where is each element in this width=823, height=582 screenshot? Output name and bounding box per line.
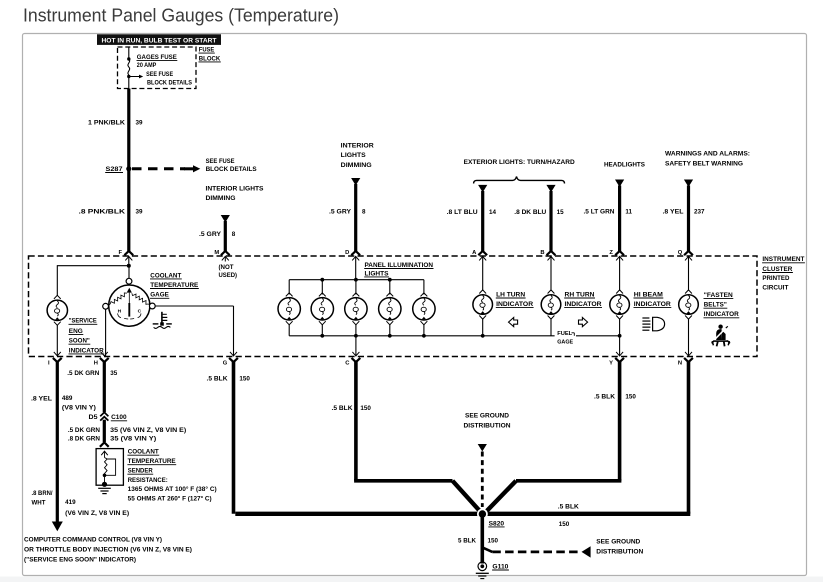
svg-text:419: 419 (65, 499, 76, 506)
svg-text:35 (V6 VIN Z, V8 VIN E): 35 (V6 VIN Z, V8 VIN E) (110, 427, 186, 434)
svg-text:150: 150 (559, 521, 570, 528)
svg-text:PANEL ILLUMINATION: PANEL ILLUMINATION (365, 262, 434, 269)
svg-text:LIGHTS: LIGHTS (341, 152, 366, 159)
svg-text:.5 GRY: .5 GRY (199, 231, 222, 238)
svg-text:39: 39 (136, 120, 144, 127)
svg-text:SOON": SOON" (69, 338, 90, 345)
svg-text:.8 YEL: .8 YEL (31, 396, 52, 403)
svg-text:11: 11 (625, 209, 632, 216)
svg-text:39: 39 (136, 209, 144, 216)
svg-text:RH TURN: RH TURN (565, 291, 595, 298)
svg-text:.5 DK GRN: .5 DK GRN (68, 427, 100, 434)
svg-text:.8 PNK/BLK: .8 PNK/BLK (79, 209, 126, 216)
svg-text:35: 35 (110, 370, 118, 377)
svg-text:150: 150 (360, 405, 371, 412)
svg-text:WHT: WHT (32, 499, 46, 506)
svg-text:COOLANT: COOLANT (150, 272, 181, 279)
svg-text:M: M (214, 250, 219, 256)
svg-text:LIGHTS: LIGHTS (365, 270, 389, 277)
svg-text:D5: D5 (89, 414, 99, 421)
svg-text:.5 BLK: .5 BLK (558, 503, 579, 510)
svg-text:LH TURN: LH TURN (496, 291, 525, 298)
svg-text:SAFETY BELT WARNING: SAFETY BELT WARNING (665, 160, 743, 167)
svg-text:CLUSTER: CLUSTER (762, 266, 792, 273)
svg-text:HI BEAM: HI BEAM (634, 291, 663, 298)
svg-text:RESISTANCE:: RESISTANCE: (128, 477, 168, 484)
svg-text:14: 14 (489, 209, 497, 216)
svg-text:G110: G110 (492, 563, 509, 570)
svg-text:INDICATOR: INDICATOR (634, 301, 671, 308)
svg-text:Y: Y (609, 361, 613, 367)
svg-text:BLOCK DETAILS: BLOCK DETAILS (206, 166, 257, 173)
svg-text:BLOCK DETAILS: BLOCK DETAILS (147, 79, 192, 86)
svg-text:150: 150 (625, 393, 636, 400)
svg-text:S287: S287 (106, 166, 124, 173)
svg-text:GAGES FUSE: GAGES FUSE (137, 54, 177, 61)
svg-text:INDICATOR: INDICATOR (69, 347, 104, 354)
svg-text:237: 237 (694, 209, 705, 216)
svg-text:15: 15 (557, 209, 565, 216)
svg-text:USED): USED) (219, 272, 238, 279)
svg-text:DISTRIBUTION: DISTRIBUTION (596, 549, 643, 556)
svg-text:INDICATOR: INDICATOR (496, 301, 533, 308)
svg-text:Q: Q (678, 250, 683, 256)
svg-text:5 BLK: 5 BLK (458, 538, 476, 545)
svg-text:HEADLIGHTS: HEADLIGHTS (604, 161, 645, 168)
svg-text:N: N (678, 361, 682, 367)
svg-text:PRINTED: PRINTED (762, 275, 789, 282)
svg-text:INSTRUMENT: INSTRUMENT (762, 256, 804, 263)
svg-text:55 OHMS AT 260° F (127° C): 55 OHMS AT 260° F (127° C) (128, 495, 212, 503)
svg-text:.8 DK GRN: .8 DK GRN (68, 436, 100, 443)
svg-text:1365 OHMS AT 100° F (38° C): 1365 OHMS AT 100° F (38° C) (128, 485, 217, 493)
svg-text:Instrument Panel Gauges (Tempe: Instrument Panel Gauges (Temperature) (23, 4, 339, 25)
svg-text:DIMMING: DIMMING (206, 195, 236, 202)
svg-text:.8 DK BLU: .8 DK BLU (514, 209, 546, 216)
svg-text:(V8 VIN Y): (V8 VIN Y) (62, 404, 96, 411)
svg-text:BLOCK: BLOCK (199, 55, 221, 62)
svg-text:DIMMING: DIMMING (341, 162, 372, 169)
svg-text:H: H (118, 309, 122, 315)
svg-text:.8 YEL: .8 YEL (663, 209, 684, 216)
svg-text:TEMPERATURE: TEMPERATURE (128, 458, 176, 465)
svg-text:OR THROTTLE BODY INJECTION (V6: OR THROTTLE BODY INJECTION (V6 VIN Z, V8… (24, 547, 192, 554)
svg-text:INDICATOR: INDICATOR (565, 301, 602, 308)
svg-text:WARNINGS AND ALARMS:: WARNINGS AND ALARMS: (665, 150, 750, 157)
svg-text:150: 150 (488, 538, 499, 545)
svg-text:8: 8 (362, 209, 366, 216)
svg-text:8: 8 (232, 231, 236, 238)
svg-text:1 PNK/BLK: 1 PNK/BLK (88, 120, 125, 127)
svg-text:SEE FUSE: SEE FUSE (146, 71, 173, 78)
svg-text:SEE GROUND: SEE GROUND (465, 413, 509, 420)
svg-text:DISTRIBUTION: DISTRIBUTION (464, 422, 511, 429)
svg-text:SEE FUSE: SEE FUSE (206, 158, 235, 165)
svg-text:ENG: ENG (69, 328, 83, 335)
svg-text:.5 LT GRN: .5 LT GRN (584, 209, 615, 216)
svg-text:20 AMP: 20 AMP (137, 62, 157, 69)
svg-text:EXTERIOR LIGHTS: TURN/HAZARD: EXTERIOR LIGHTS: TURN/HAZARD (464, 159, 575, 166)
svg-text:150: 150 (239, 376, 250, 383)
svg-text:FUSE: FUSE (199, 47, 215, 54)
svg-text:.5 BLK: .5 BLK (332, 405, 353, 412)
svg-text:SEE GROUND: SEE GROUND (596, 539, 640, 546)
svg-text:INTERIOR: INTERIOR (341, 142, 374, 149)
svg-text:INDICATOR: INDICATOR (704, 311, 739, 318)
svg-text:INTERIOR LIGHTS: INTERIOR LIGHTS (206, 186, 264, 193)
svg-text:COOLANT: COOLANT (128, 449, 159, 456)
svg-text:GAGE: GAGE (557, 340, 573, 346)
svg-text:HOT IN RUN, BULB TEST OR START: HOT IN RUN, BULB TEST OR START (102, 37, 217, 44)
svg-text:.8 BRN/: .8 BRN/ (32, 490, 53, 497)
svg-text:35 (V8 VIN Y): 35 (V8 VIN Y) (110, 436, 156, 443)
svg-text:H: H (94, 361, 98, 367)
svg-text:489: 489 (62, 395, 73, 402)
svg-text:Z: Z (609, 250, 613, 256)
svg-text:CIRCUIT: CIRCUIT (762, 284, 788, 291)
svg-text:G: G (223, 361, 228, 367)
svg-text:(V6 VIN Z, V8 VIN E): (V6 VIN Z, V8 VIN E) (65, 510, 129, 517)
svg-text:F: F (119, 250, 123, 256)
svg-text:COMPUTER COMMAND CONTROL (V8 V: COMPUTER COMMAND CONTROL (V8 VIN Y) (24, 537, 162, 544)
svg-text:.5 GRY: .5 GRY (329, 209, 352, 216)
svg-text:D: D (345, 250, 349, 256)
svg-text:.8 LT BLU: .8 LT BLU (447, 209, 478, 216)
svg-text:"SERVICE: "SERVICE (69, 318, 97, 325)
svg-text:(NOT: (NOT (219, 264, 234, 271)
svg-text:GAGE: GAGE (150, 292, 169, 299)
svg-text:C100: C100 (111, 414, 127, 421)
svg-text:S820: S820 (489, 520, 505, 527)
svg-text:("SERVICE ENG SOON" INDICATOR): ("SERVICE ENG SOON" INDICATOR) (24, 556, 136, 563)
svg-text:.5 BLK: .5 BLK (207, 376, 228, 383)
svg-text:.5 BLK: .5 BLK (594, 393, 615, 400)
svg-text:TEMPERATURE: TEMPERATURE (150, 282, 198, 289)
svg-text:SENDER: SENDER (128, 468, 153, 475)
svg-text:B: B (540, 250, 544, 256)
svg-text:.5 DK GRN: .5 DK GRN (67, 370, 99, 377)
svg-text:FUEL: FUEL (557, 331, 572, 337)
svg-text:"FASTEN: "FASTEN (704, 292, 733, 299)
svg-text:BELTS": BELTS" (704, 302, 727, 309)
